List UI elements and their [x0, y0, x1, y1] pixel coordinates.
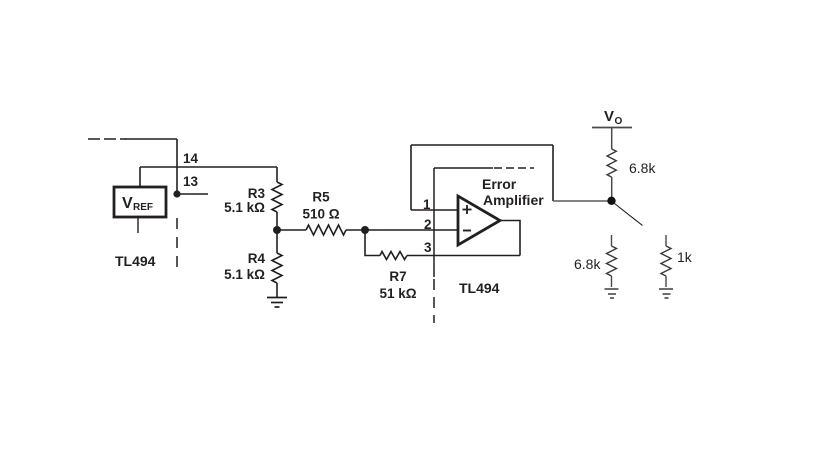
wire stub above lower 6.8k [611, 235, 613, 246]
wire pin 14 horizontal [140, 166, 277, 168]
svg-text:TL494: TL494 [459, 280, 500, 296]
svg-text:TL494: TL494 [115, 253, 156, 269]
wire 1k to ground [665, 276, 667, 287]
wire R5 to node2 [346, 229, 365, 231]
svg-text:2: 2 [424, 217, 432, 232]
svg-text:5.1 kΩ: 5.1 kΩ [224, 200, 265, 215]
IC boundary top edge (solid then dashed) [434, 167, 493, 169]
resistor R5 [306, 225, 346, 235]
wire R3 to node [276, 212, 278, 230]
svg-text:Amplifier: Amplifier [483, 192, 544, 208]
wire op-amp output to pin3 loop [500, 221, 520, 256]
resistor 6.8k (lower) [607, 246, 617, 276]
svg-text:6.8k: 6.8k [574, 256, 601, 272]
IC boundary vertical (solid then dashed) [433, 168, 435, 277]
svg-text:V: V [122, 195, 133, 212]
node pin13 junction dot [173, 190, 180, 197]
wire pin 2 into op-amp [365, 229, 458, 231]
wire R4 to ground [276, 283, 278, 297]
ground below R4 [267, 298, 287, 308]
wire from pin14 down to VREF box [139, 167, 141, 186]
svg-text:Error: Error [482, 176, 517, 192]
wire pin 13 stub right [177, 193, 208, 195]
resistor R4 [272, 253, 282, 283]
wire Vo bar to top 6.8k resistor [611, 128, 613, 150]
wire dashed IC boundary below pin13 node [176, 218, 178, 269]
wire node2 down to R7 [365, 230, 380, 256]
svg-text:R4: R4 [248, 251, 266, 266]
node R3/R4/R5 junction dot [273, 226, 281, 234]
svg-text:R7: R7 [389, 269, 406, 284]
svg-text:REF: REF [133, 202, 153, 213]
wire stub below VREF box [137, 218, 139, 233]
wire feedback to output node [553, 200, 611, 202]
svg-text:5.1 kΩ: 5.1 kΩ [224, 267, 265, 282]
ground below 1k [659, 289, 673, 298]
svg-text:3: 3 [424, 240, 432, 255]
svg-text:6.8k: 6.8k [629, 160, 656, 176]
wire top-left horizontal to corner [125, 138, 177, 140]
svg-text:1: 1 [423, 197, 431, 212]
wire feedback right vertical [552, 145, 554, 201]
svg-text:O: O [615, 116, 623, 127]
svg-text:14: 14 [183, 151, 199, 166]
wire from pin14 wire down to R3 [276, 167, 278, 182]
resistor R3 [272, 182, 282, 212]
op-amp minus sign [463, 230, 471, 232]
svg-text:13: 13 [183, 174, 199, 189]
wire node to R4 [276, 230, 278, 253]
wire dashed stub top-left [88, 138, 126, 140]
wire pin 1 into op-amp [411, 209, 458, 211]
op-amp plus sign [463, 205, 472, 214]
resistor R7 [380, 252, 407, 260]
svg-text:V: V [604, 108, 614, 125]
svg-text:51 kΩ: 51 kΩ [379, 286, 416, 301]
svg-text:510 Ω: 510 Ω [302, 207, 339, 222]
resistor 6.8k (top) [607, 149, 616, 177]
ground below lower 6.8k [605, 289, 619, 298]
wire feedback vertical to pin1 [410, 145, 412, 210]
wire stub above 1k [665, 235, 667, 246]
svg-text:R3: R3 [248, 186, 266, 201]
regulator VREF box [114, 187, 166, 217]
node output junction dot [607, 197, 615, 205]
svg-text:R5: R5 [312, 190, 330, 205]
wire vertical from corner down to pin13 node [176, 139, 178, 195]
node R5/R7/pin2 junction dot [361, 226, 369, 234]
Vo terminal bar [592, 127, 632, 129]
wire node to R5 [277, 229, 306, 231]
svg-text:1k: 1k [677, 249, 693, 265]
wire feedback top horizontal [411, 144, 553, 146]
op-amp U1 triangle [458, 196, 500, 245]
wire pin 3 from R7 to output [407, 255, 520, 257]
switch wiper diagonal [615, 204, 643, 226]
wire lower 6.8k to ground [611, 276, 613, 287]
resistor 1k [661, 246, 671, 276]
wire resistor to output node [611, 177, 613, 200]
